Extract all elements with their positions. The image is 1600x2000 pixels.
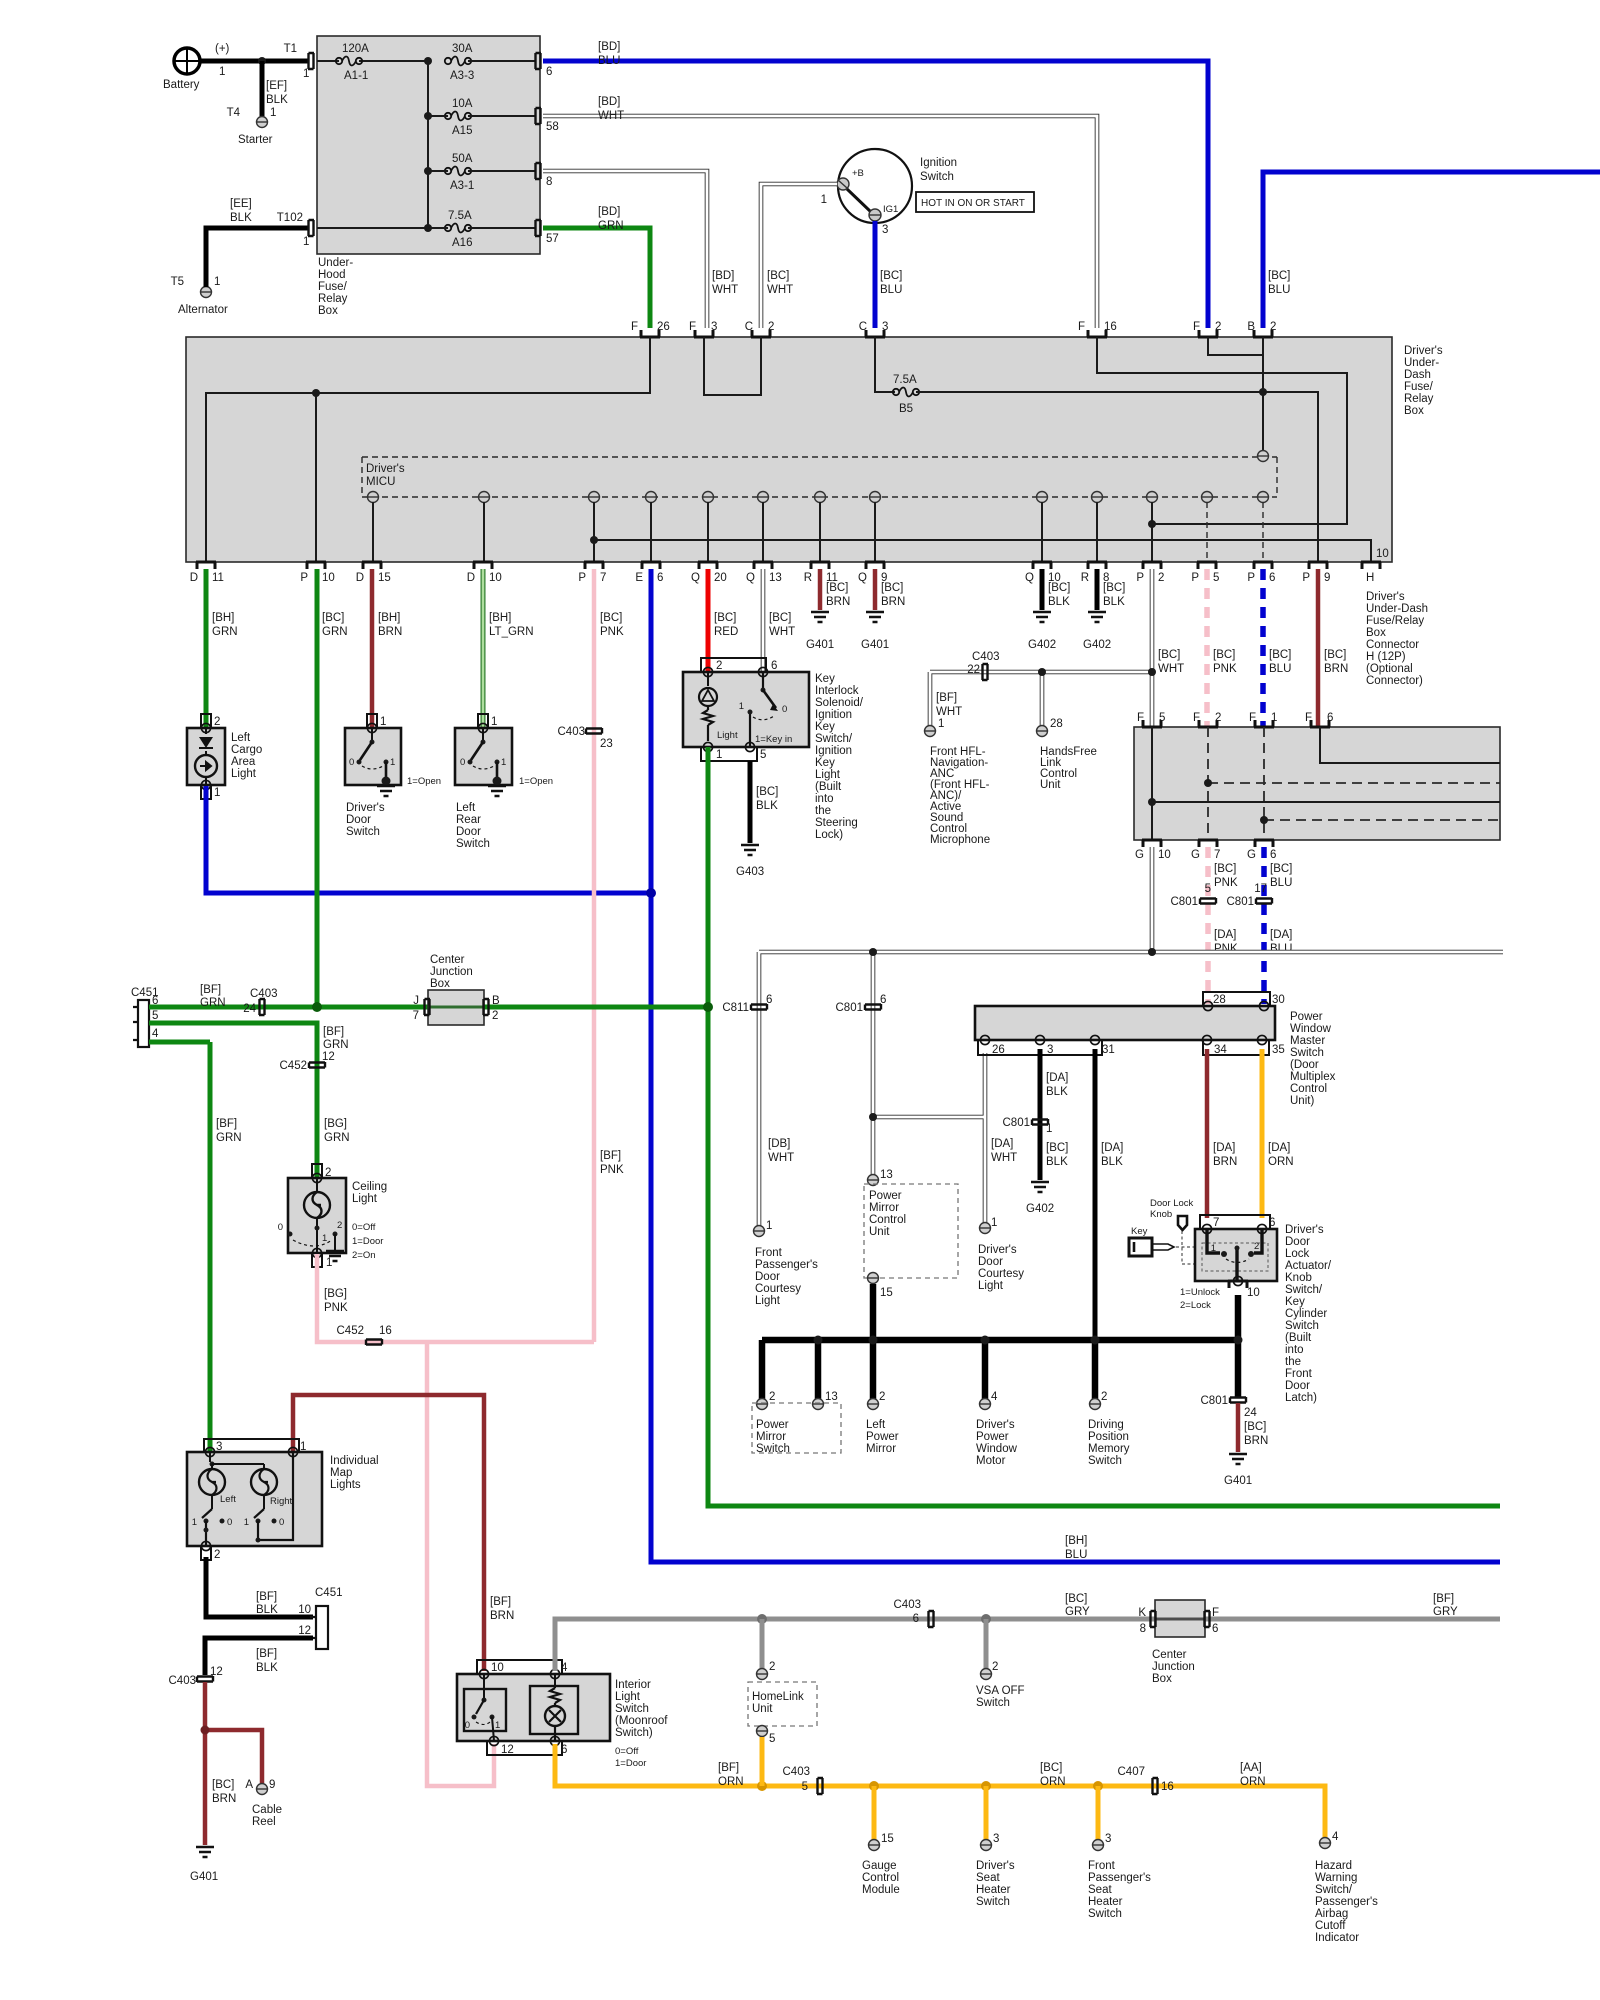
svg-text:4: 4 — [1332, 1831, 1339, 1843]
svg-text:BRN: BRN — [1324, 663, 1348, 675]
svg-text:[BF]: [BF] — [936, 692, 957, 704]
pin G7 — [1191, 840, 1220, 861]
svg-text:10: 10 — [1376, 548, 1389, 560]
svg-text:Hood: Hood — [318, 269, 346, 281]
wire [DA] BRN pin34 to door lock — [1207, 1049, 1237, 1218]
svg-text:A15: A15 — [452, 125, 472, 137]
svg-text:ORN: ORN — [1040, 1776, 1066, 1788]
svg-text:Under-: Under- — [1404, 357, 1439, 369]
svg-text:[BC]: [BC] — [1065, 1593, 1087, 1605]
svg-text:6: 6 — [771, 660, 777, 672]
pin F16 — [1078, 321, 1117, 337]
svg-text:0: 0 — [279, 1517, 284, 1528]
fuse 7.5A B5 — [893, 374, 919, 415]
svg-text:Light: Light — [615, 1691, 641, 1703]
svg-text:Starter: Starter — [238, 134, 273, 146]
svg-text:7: 7 — [1214, 849, 1220, 861]
svg-text:Microphone: Microphone — [930, 834, 990, 846]
svg-text:C: C — [745, 321, 753, 333]
svg-text:[BC]: [BC] — [881, 582, 903, 594]
svg-text:PNK: PNK — [600, 1164, 624, 1176]
pin P2 — [1136, 562, 1164, 584]
svg-text:F: F — [1193, 321, 1200, 333]
ground G401 Q9 — [861, 612, 889, 651]
svg-text:[BC]: [BC] — [1048, 582, 1070, 594]
pin D15 — [356, 562, 391, 584]
svg-text:C403: C403 — [894, 1599, 922, 1611]
svg-text:Door: Door — [1285, 1236, 1310, 1248]
svg-text:2: 2 — [214, 716, 220, 728]
svg-text:6: 6 — [1212, 1623, 1218, 1635]
svg-text:Battery: Battery — [163, 79, 200, 91]
pin P9 — [1302, 562, 1330, 584]
svg-text:Center: Center — [430, 954, 465, 966]
svg-text:Unit: Unit — [752, 1703, 773, 1715]
svg-text:[BD]: [BD] — [712, 270, 734, 282]
svg-text:F: F — [1249, 712, 1256, 724]
svg-text:G402: G402 — [1083, 639, 1111, 651]
connector C452 16 — [337, 1325, 392, 1345]
svg-text:C403: C403 — [972, 651, 1000, 663]
pin Q13 — [746, 562, 782, 584]
svg-text:1: 1 — [380, 716, 386, 728]
svg-text:Hazard: Hazard — [1315, 1860, 1352, 1872]
svg-text:WHT: WHT — [1158, 663, 1184, 675]
fuse 30A A3-3 — [445, 43, 536, 82]
svg-text:Reel: Reel — [252, 1816, 276, 1828]
svg-text:Driver's: Driver's — [1285, 1224, 1324, 1236]
svg-text:BLK: BLK — [1048, 596, 1070, 608]
svg-text:Power: Power — [756, 1419, 789, 1431]
center junction box 1 — [413, 954, 500, 1025]
svg-text:the: the — [815, 805, 831, 817]
pin Q9 — [858, 562, 887, 584]
svg-text:Position: Position — [1088, 1431, 1129, 1443]
svg-text:Master: Master — [1290, 1035, 1325, 1047]
svg-text:30: 30 — [1272, 994, 1285, 1006]
svg-text:BRN: BRN — [378, 626, 402, 638]
svg-text:GRN: GRN — [216, 1132, 242, 1144]
svg-text:2: 2 — [1270, 321, 1276, 333]
key interlock text — [815, 673, 864, 841]
wire [BC] BRN P9 to F6 — [1318, 569, 1348, 730]
wire [BC] BLK R8 to G402 — [1097, 569, 1125, 610]
wire [BC] PNK P5 to F2 dashed — [1207, 569, 1237, 730]
svg-text:+B: +B — [852, 168, 864, 179]
svg-text:8: 8 — [546, 176, 552, 188]
svg-text:G403: G403 — [736, 866, 764, 878]
svg-text:Interlock: Interlock — [815, 685, 859, 697]
svg-text:Front: Front — [755, 1247, 783, 1259]
svg-text:Seat: Seat — [976, 1872, 1000, 1884]
svg-text:the: the — [1285, 1356, 1301, 1368]
svg-text:Ignition: Ignition — [920, 157, 957, 169]
svg-text:BRN: BRN — [1244, 1435, 1268, 1447]
svg-text:1: 1 — [270, 107, 276, 119]
svg-text:Motor: Motor — [976, 1455, 1006, 1467]
svg-text:PNK: PNK — [324, 1302, 348, 1314]
svg-text:Left: Left — [220, 1494, 236, 1505]
internal dashed F1-G6 with bus — [1264, 727, 1500, 840]
svg-text:Switch: Switch — [756, 1443, 790, 1455]
fuse 120A A1-1 — [336, 43, 369, 82]
svg-text:3: 3 — [1105, 1833, 1111, 1845]
svg-text:1: 1 — [739, 701, 744, 712]
svg-text:PNK: PNK — [1213, 663, 1237, 675]
connector H text — [1366, 591, 1428, 687]
svg-text:2: 2 — [214, 1549, 220, 1561]
svg-text:Connector: Connector — [1366, 639, 1419, 651]
svg-text:Door: Door — [346, 814, 371, 826]
terminal gauge control module — [862, 1833, 900, 1896]
svg-text:[BC]: [BC] — [1046, 1142, 1068, 1154]
svg-text:1=Key in: 1=Key in — [755, 734, 792, 745]
svg-text:E: E — [635, 572, 643, 584]
wire [DA] BLK pin31 to bus — [1095, 1049, 1123, 1340]
svg-text:Courtesy: Courtesy — [755, 1283, 801, 1295]
wire [BC] BRN to G401 — [1238, 1403, 1268, 1452]
svg-text:C403: C403 — [169, 1675, 197, 1687]
battery — [163, 43, 230, 91]
svg-text:22: 22 — [967, 664, 980, 676]
svg-text:GRN: GRN — [322, 626, 348, 638]
svg-text:2: 2 — [769, 1391, 775, 1403]
svg-text:D: D — [190, 572, 198, 584]
svg-text:[BC]: [BC] — [1158, 649, 1180, 661]
internal solid F5-G10 with bus — [1152, 727, 1500, 840]
svg-text:[BC]: [BC] — [1269, 649, 1291, 661]
svg-text:B5: B5 — [899, 403, 913, 415]
terminal cable reel — [245, 1779, 282, 1828]
ignition switch — [821, 149, 958, 236]
svg-text:GRN: GRN — [212, 626, 238, 638]
svg-text:[BC]: [BC] — [880, 270, 902, 282]
svg-text:2: 2 — [768, 321, 774, 333]
ground G402 R8 — [1083, 612, 1111, 651]
wire [BC] GRN P10 down — [317, 569, 348, 1007]
svg-text:BRN: BRN — [881, 596, 905, 608]
svg-text:[BC]: [BC] — [756, 786, 778, 798]
connector C452 12 — [280, 1051, 350, 1144]
internal wire F16 to P2 — [1097, 337, 1347, 524]
MICU terminals row — [368, 492, 1269, 503]
pin F3 — [689, 321, 717, 337]
wire [BD] BLU pin6 to F2 — [543, 61, 1208, 328]
svg-text:T102: T102 — [277, 212, 303, 224]
svg-text:Area: Area — [231, 756, 256, 768]
svg-text:[BD]: [BD] — [598, 206, 620, 218]
svg-text:BLK: BLK — [1101, 1156, 1123, 1168]
svg-text:13: 13 — [880, 1169, 893, 1181]
wire [BC] RED Q20 to key interlock — [708, 569, 738, 674]
svg-text:35: 35 — [1272, 1044, 1285, 1056]
svg-text:Door: Door — [1285, 1380, 1310, 1392]
wire ORN homelink pin5 — [760, 1737, 765, 1786]
under-hood fuse/relay box — [317, 36, 540, 254]
svg-text:Light: Light — [815, 769, 841, 781]
svg-text:Driver's: Driver's — [978, 1244, 1017, 1256]
label BF ORN — [718, 1762, 744, 1788]
dashed leads P5 P6 — [1207, 502, 1263, 562]
svg-text:Ceiling: Ceiling — [352, 1181, 387, 1193]
svg-text:2: 2 — [1215, 712, 1221, 724]
svg-text:Lights: Lights — [330, 1479, 361, 1491]
svg-text:T1: T1 — [284, 43, 297, 55]
svg-text:Box: Box — [1152, 1673, 1172, 1685]
svg-text:Passenger's: Passenger's — [1315, 1896, 1378, 1908]
svg-text:C452: C452 — [337, 1325, 365, 1337]
driver's door lock actuator — [1180, 1215, 1277, 1311]
svg-text:A3-1: A3-1 — [450, 180, 474, 192]
svg-text:A3-3: A3-3 — [450, 70, 474, 82]
svg-text:R: R — [804, 572, 812, 584]
svg-text:[BH]: [BH] — [1065, 1535, 1087, 1547]
svg-text:Box: Box — [318, 305, 338, 317]
door lock knob icon — [1150, 1198, 1195, 1264]
svg-text:(Optional: (Optional — [1366, 663, 1413, 675]
svg-text:1: 1 — [991, 1217, 997, 1229]
svg-text:1: 1 — [303, 236, 309, 248]
svg-text:[BC]: [BC] — [1244, 1421, 1266, 1433]
svg-text:Switch: Switch — [976, 1697, 1010, 1709]
svg-text:Lock: Lock — [1285, 1248, 1310, 1260]
svg-text:1: 1 — [766, 1220, 772, 1232]
svg-text:Switch: Switch — [920, 171, 954, 183]
svg-text:Right: Right — [270, 1496, 293, 1507]
ground G401 bottom left — [190, 1847, 218, 1883]
svg-text:12: 12 — [298, 1625, 311, 1637]
black power bus — [762, 1336, 1243, 1400]
svg-text:0: 0 — [465, 1720, 470, 1731]
svg-text:Switch): Switch) — [615, 1727, 653, 1739]
svg-text:6: 6 — [1270, 849, 1276, 861]
power window master switch box — [975, 1006, 1275, 1040]
svg-text:0: 0 — [278, 1222, 283, 1233]
svg-text:[BF]: [BF] — [256, 1648, 277, 1660]
svg-text:5: 5 — [1213, 572, 1219, 584]
ground G403 — [736, 845, 764, 878]
svg-text:Q: Q — [691, 572, 700, 584]
svg-text:10: 10 — [298, 1604, 311, 1616]
wire [DB] WHT net G10 down — [759, 847, 1503, 1226]
svg-text:2=Lock: 2=Lock — [1180, 1300, 1211, 1311]
svg-text:F: F — [631, 321, 638, 333]
svg-text:10: 10 — [322, 572, 335, 584]
pin F6 — [1305, 712, 1333, 727]
svg-text:T5: T5 — [171, 276, 184, 288]
svg-text:Door: Door — [456, 826, 481, 838]
internal wire P7 to H — [594, 540, 1371, 562]
svg-text:10: 10 — [489, 572, 502, 584]
svg-text:Switch: Switch — [1088, 1908, 1122, 1920]
svg-text:Control: Control — [869, 1214, 906, 1226]
svg-text:A16: A16 — [452, 237, 472, 249]
svg-text:P: P — [300, 572, 308, 584]
svg-text:Light: Light — [755, 1295, 781, 1307]
svg-text:BLK: BLK — [230, 212, 252, 224]
wire [BF] BRN map lights to interior switch — [293, 1395, 514, 1671]
svg-text:1: 1 — [821, 194, 827, 206]
wire [BC] WHT ignition +B to C2 — [761, 184, 837, 328]
svg-text:Light: Light — [717, 730, 738, 741]
svg-text:C407: C407 — [1118, 1766, 1146, 1778]
svg-text:1: 1 — [326, 1257, 332, 1269]
svg-text:[BH]: [BH] — [212, 612, 234, 624]
svg-text:0: 0 — [349, 757, 354, 768]
terminal hazard warning — [1315, 1831, 1378, 1944]
connector C403 24 — [243, 988, 277, 1015]
internal wire C3 to fuse B5 — [875, 337, 895, 392]
svg-text:Ignition: Ignition — [815, 709, 852, 721]
svg-text:1: 1 — [214, 276, 220, 288]
svg-text:Cargo: Cargo — [231, 744, 262, 756]
svg-text:Box: Box — [430, 978, 450, 990]
pin F2 right box — [1193, 712, 1221, 727]
right under-dash relay box — [1134, 727, 1500, 840]
svg-text:C451: C451 — [315, 1587, 343, 1599]
svg-text:Under-: Under- — [318, 257, 353, 269]
svg-text:BRN: BRN — [490, 1610, 514, 1622]
wire [BC]/[DA] BLU G6 down dashed — [1254, 847, 1292, 1004]
svg-text:Driver's: Driver's — [1404, 345, 1443, 357]
svg-text:Door: Door — [755, 1271, 780, 1283]
svg-text:Mirror: Mirror — [756, 1431, 786, 1443]
svg-text:H (12P): H (12P) — [1366, 651, 1406, 663]
svg-text:Junction: Junction — [430, 966, 473, 978]
svg-text:Switch: Switch — [976, 1896, 1010, 1908]
connector C451 left — [131, 987, 159, 1047]
svg-text:Connector): Connector) — [1366, 675, 1423, 687]
front HFL text — [930, 746, 990, 846]
svg-text:2: 2 — [879, 1391, 885, 1403]
svg-text:RED: RED — [714, 626, 738, 638]
wire [BD] BLU right edge to B2 — [1263, 172, 1600, 328]
svg-text:Control: Control — [1290, 1083, 1327, 1095]
svg-text:[BC]: [BC] — [769, 612, 791, 624]
fuse 7.5A A16 — [438, 210, 536, 249]
svg-text:1: 1 — [390, 757, 395, 768]
svg-text:WHT: WHT — [768, 1152, 794, 1164]
connector C801 1 — [1003, 1117, 1049, 1129]
svg-text:[DA]: [DA] — [1101, 1142, 1123, 1154]
svg-text:Key: Key — [1285, 1296, 1305, 1308]
wire [BC] BLK Q10 to G402 — [1042, 569, 1070, 610]
wire alternator to T102 — [206, 228, 308, 287]
svg-text:into: into — [815, 793, 834, 805]
svg-text:4: 4 — [152, 1028, 159, 1040]
svg-text:Front: Front — [1088, 1860, 1116, 1872]
svg-text:Box: Box — [1366, 627, 1386, 639]
svg-text:[BH]: [BH] — [489, 612, 511, 624]
svg-text:ORN: ORN — [718, 1776, 744, 1788]
svg-text:[BC]: [BC] — [322, 612, 344, 624]
svg-text:Lock): Lock) — [815, 829, 843, 841]
svg-text:50A: 50A — [452, 153, 473, 165]
fuse 10A A15 — [438, 98, 536, 137]
svg-text:23: 23 — [600, 738, 613, 750]
svg-text:Gauge: Gauge — [862, 1860, 897, 1872]
svg-text:7.5A: 7.5A — [893, 374, 917, 386]
svg-text:15: 15 — [880, 1287, 893, 1299]
connector C403 23 — [558, 726, 613, 750]
svg-text:[BC]: [BC] — [1213, 649, 1235, 661]
connector C811 6 — [722, 994, 772, 1014]
svg-text:C452: C452 — [280, 1060, 308, 1072]
pin P10 — [300, 562, 334, 584]
svg-text:5: 5 — [769, 1733, 775, 1745]
svg-text:Switch: Switch — [615, 1703, 649, 1715]
pin Q10 — [1025, 562, 1061, 584]
svg-text:10: 10 — [491, 1662, 504, 1674]
svg-text:Front: Front — [1285, 1368, 1313, 1380]
MICU terminal top (B2 feed) — [1258, 451, 1269, 462]
svg-text:Fuse/Relay: Fuse/Relay — [1366, 615, 1424, 627]
svg-text:(Built: (Built — [815, 781, 842, 793]
svg-text:Cutoff: Cutoff — [1315, 1920, 1346, 1932]
wire [BF] ORN interior pin6 bus — [555, 1744, 1325, 1843]
svg-text:7.5A: 7.5A — [448, 210, 472, 222]
svg-text:1: 1 — [716, 749, 722, 761]
svg-text:1=Door: 1=Door — [352, 1236, 383, 1247]
svg-text:15: 15 — [378, 572, 391, 584]
internal wire F3 to C2 — [704, 337, 761, 395]
svg-text:Unit): Unit) — [1290, 1095, 1314, 1107]
svg-text:R: R — [1081, 572, 1089, 584]
svg-text:IG1: IG1 — [883, 204, 898, 215]
svg-text:[BC]: [BC] — [767, 270, 789, 282]
wire [BC] BLK key interlock pin5 to G403 — [750, 761, 778, 843]
terminal driver door courtesy — [978, 1217, 1024, 1292]
svg-text:2: 2 — [337, 1220, 342, 1231]
svg-text:[BF]: [BF] — [490, 1596, 511, 1608]
wire [BC] WHT Q13 to key interlock — [763, 569, 795, 672]
svg-text:Driving: Driving — [1088, 1419, 1124, 1431]
svg-text:Power: Power — [866, 1431, 899, 1443]
svg-text:Q: Q — [858, 572, 867, 584]
svg-text:24: 24 — [243, 1003, 256, 1015]
svg-text:Relay: Relay — [1404, 393, 1434, 405]
svg-text:16: 16 — [379, 1325, 392, 1337]
svg-text:PNK: PNK — [1214, 877, 1238, 889]
svg-text:0: 0 — [460, 757, 465, 768]
pin R8 — [1081, 562, 1110, 584]
svg-text:6: 6 — [766, 994, 772, 1006]
pin 58 — [535, 108, 559, 133]
svg-text:HomeLink: HomeLink — [752, 1691, 804, 1703]
svg-text:1: 1 — [495, 1720, 500, 1731]
svg-text:[BG]: [BG] — [324, 1118, 347, 1130]
svg-text:1=Open: 1=Open — [407, 776, 441, 787]
terminal front passenger seat heater — [1088, 1833, 1151, 1920]
svg-text:24: 24 — [1244, 1407, 1257, 1419]
svg-text:LT_GRN: LT_GRN — [489, 626, 534, 638]
driver's under-dash fuse/relay box — [186, 337, 1392, 562]
svg-text:15: 15 — [881, 1833, 894, 1845]
svg-text:BLU: BLU — [598, 55, 620, 67]
svg-text:[BC]: [BC] — [1103, 582, 1125, 594]
svg-text:C: C — [859, 321, 867, 333]
connector C801 6 — [836, 994, 887, 1014]
wire [BD] WHT pin8 to F3 — [543, 171, 738, 328]
svg-text:1=Unlock: 1=Unlock — [1180, 1287, 1220, 1298]
svg-text:Unit: Unit — [1040, 779, 1061, 791]
svg-text:10A: 10A — [452, 98, 473, 110]
wire GRN key interlock pin1 down — [708, 747, 1500, 1506]
svg-text:[BC]: [BC] — [714, 612, 736, 624]
svg-text:3: 3 — [882, 224, 888, 236]
handsfree text — [1040, 746, 1097, 791]
svg-text:16: 16 — [1104, 321, 1117, 333]
